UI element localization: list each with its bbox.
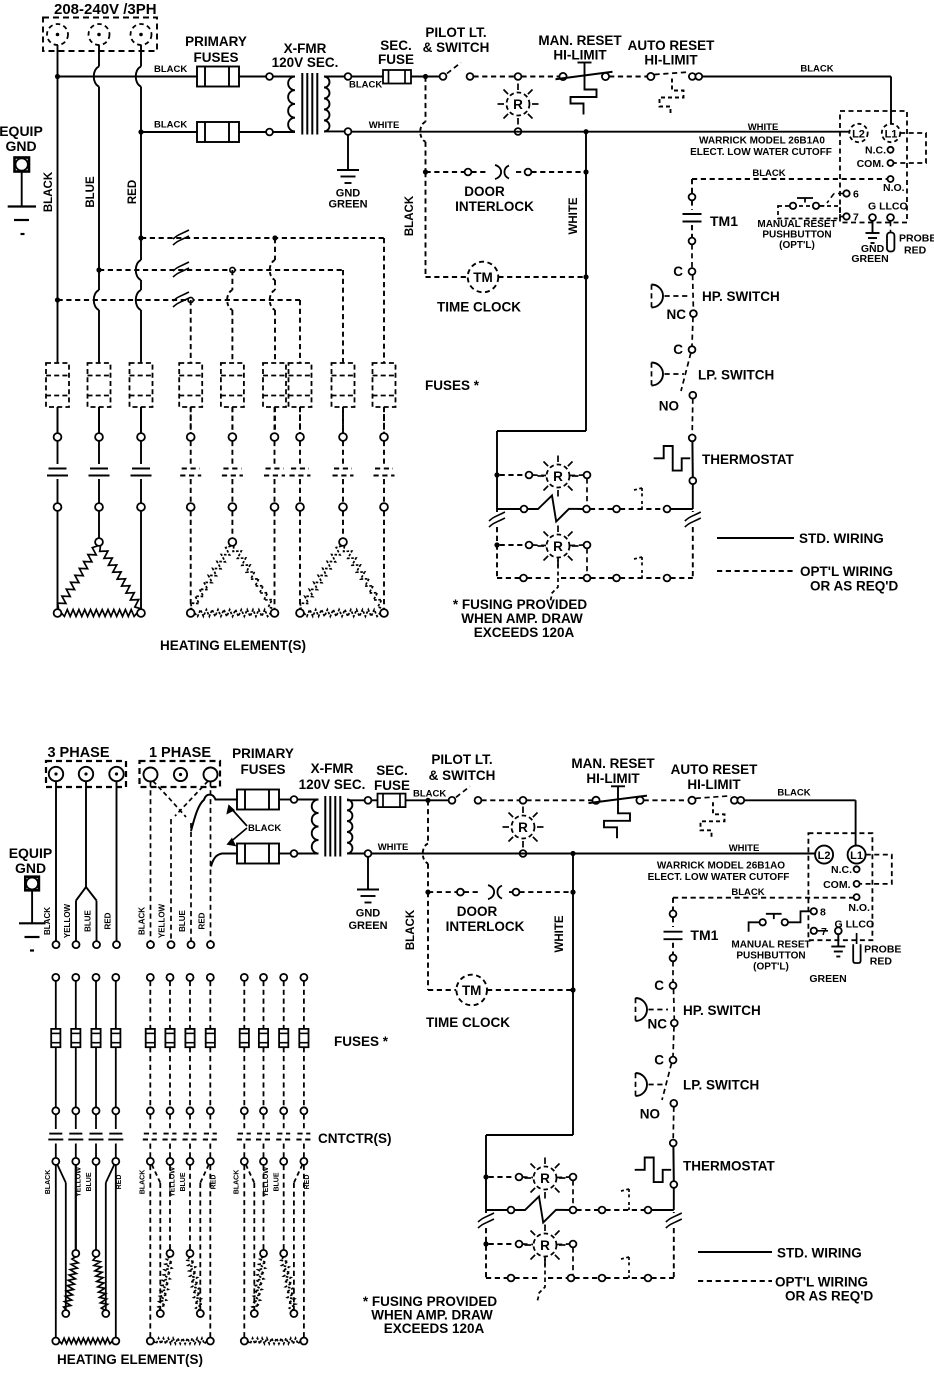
- svg-text:YELLOW: YELLOW: [157, 903, 166, 938]
- svg-text:EXCEEDS 120A: EXCEEDS 120A: [384, 1321, 485, 1336]
- svg-text:NO: NO: [640, 1107, 660, 1122]
- svg-text:FUSE: FUSE: [374, 778, 410, 793]
- svg-text:MAN. RESET: MAN. RESET: [538, 33, 622, 48]
- svg-text:CNTCTR(S): CNTCTR(S): [318, 1131, 392, 1146]
- svg-text:TIME CLOCK: TIME CLOCK: [426, 1015, 510, 1030]
- svg-text:BLACK: BLACK: [752, 168, 785, 179]
- svg-text:NC: NC: [667, 307, 687, 322]
- svg-text:8: 8: [820, 907, 826, 919]
- svg-text:MAN. RESET: MAN. RESET: [571, 756, 655, 771]
- svg-text:STD. WIRING: STD. WIRING: [777, 1246, 862, 1261]
- svg-text:120V SEC.: 120V SEC.: [272, 55, 339, 70]
- svg-text:HI-LIMIT: HI-LIMIT: [687, 777, 741, 792]
- svg-text:BLACK: BLACK: [138, 907, 147, 935]
- svg-text:BLUE: BLUE: [84, 909, 93, 931]
- svg-text:WHITE: WHITE: [369, 120, 400, 131]
- svg-text:& SWITCH: & SWITCH: [423, 40, 490, 55]
- svg-text:OR AS REQ'D: OR AS REQ'D: [810, 579, 898, 594]
- svg-text:R: R: [513, 97, 523, 112]
- svg-text:LP. SWITCH: LP. SWITCH: [683, 1078, 759, 1093]
- svg-text:PILOT LT.: PILOT LT.: [425, 25, 486, 40]
- svg-text:NO: NO: [659, 399, 679, 414]
- svg-text:PUSHBUTTON: PUSHBUTTON: [762, 230, 831, 241]
- svg-text:120V SEC.: 120V SEC.: [299, 777, 366, 792]
- svg-text:C: C: [673, 342, 683, 357]
- svg-text:AUTO RESET: AUTO RESET: [628, 38, 716, 53]
- svg-text:INTERLOCK: INTERLOCK: [455, 199, 534, 214]
- svg-text:WHITE: WHITE: [748, 122, 779, 133]
- svg-text:7: 7: [853, 212, 859, 224]
- svg-text:INTERLOCK: INTERLOCK: [446, 919, 525, 934]
- svg-text:ELECT. LOW WATER CUTOFF: ELECT. LOW WATER CUTOFF: [648, 872, 790, 883]
- svg-text:FUSES *: FUSES *: [425, 378, 480, 393]
- svg-text:HEATING ELEMENT(S): HEATING ELEMENT(S): [160, 638, 306, 653]
- svg-text:HP. SWITCH: HP. SWITCH: [683, 1003, 761, 1018]
- svg-text:BLACK: BLACK: [140, 1170, 147, 1195]
- svg-text:GND: GND: [15, 860, 46, 876]
- svg-text:DOOR: DOOR: [464, 184, 505, 199]
- svg-text:C: C: [654, 1053, 664, 1068]
- svg-text:FUSES *: FUSES *: [334, 1034, 389, 1049]
- svg-text:WHITE: WHITE: [378, 842, 409, 853]
- svg-text:PRIMARY: PRIMARY: [185, 34, 247, 49]
- svg-text:THERMOSTAT: THERMOSTAT: [702, 452, 794, 467]
- svg-text:R: R: [553, 469, 563, 484]
- svg-text:TIME CLOCK: TIME CLOCK: [437, 300, 521, 315]
- svg-text:WHITE: WHITE: [729, 843, 760, 854]
- svg-text:STD. WIRING: STD. WIRING: [799, 531, 884, 546]
- svg-text:BLACK: BLACK: [43, 171, 55, 212]
- svg-text:TM1: TM1: [710, 213, 738, 229]
- svg-text:L2: L2: [818, 850, 831, 862]
- svg-text:C: C: [654, 978, 664, 993]
- svg-text:COM.: COM.: [857, 158, 884, 170]
- svg-text:AUTO RESET: AUTO RESET: [671, 762, 759, 777]
- svg-text:BLUE: BLUE: [86, 1172, 93, 1191]
- svg-text:RED: RED: [304, 1175, 311, 1190]
- svg-text:R: R: [553, 539, 563, 554]
- svg-text:SEC.: SEC.: [380, 38, 412, 53]
- svg-text:& SWITCH: & SWITCH: [429, 768, 496, 783]
- svg-text:RED: RED: [198, 912, 207, 929]
- svg-text:PUSHBUTTON: PUSHBUTTON: [736, 951, 805, 962]
- svg-text:RED: RED: [870, 956, 893, 968]
- svg-text:GND: GND: [5, 138, 36, 154]
- svg-text:EXCEEDS 120A: EXCEEDS 120A: [474, 625, 575, 640]
- svg-text:RED: RED: [104, 912, 113, 929]
- svg-text:FUSES: FUSES: [240, 762, 285, 777]
- svg-text:SEC.: SEC.: [376, 763, 408, 778]
- svg-text:BLACK: BLACK: [349, 80, 382, 91]
- svg-text:BLACK: BLACK: [731, 887, 764, 898]
- svg-text:(OPT'L): (OPT'L): [753, 962, 789, 973]
- svg-text:PROBE: PROBE: [899, 233, 934, 245]
- svg-text:L1: L1: [885, 129, 898, 141]
- svg-text:GND: GND: [356, 908, 381, 920]
- svg-text:(OPT'L): (OPT'L): [779, 240, 815, 251]
- svg-text:N.O.: N.O.: [848, 902, 870, 914]
- svg-text:BLUE: BLUE: [180, 1172, 187, 1191]
- svg-text:6: 6: [853, 189, 859, 201]
- svg-text:DOOR: DOOR: [457, 904, 498, 919]
- svg-text:WARRICK MODEL 26B1AO: WARRICK MODEL 26B1AO: [657, 861, 785, 872]
- svg-text:RED: RED: [210, 1175, 217, 1190]
- svg-text:BLUE: BLUE: [274, 1172, 281, 1191]
- svg-text:L1: L1: [850, 850, 863, 862]
- svg-text:EQUIP: EQUIP: [9, 845, 53, 861]
- svg-text:C: C: [673, 264, 683, 279]
- svg-text:N.C.: N.C.: [865, 145, 886, 157]
- svg-text:FUSE: FUSE: [378, 52, 414, 67]
- svg-text:BLACK: BLACK: [800, 64, 833, 75]
- svg-text:1 PHASE: 1 PHASE: [149, 745, 211, 761]
- svg-text:OR AS REQ'D: OR AS REQ'D: [785, 1289, 873, 1304]
- svg-text:FUSES: FUSES: [193, 50, 238, 65]
- svg-text:ELECT. LOW WATER CUTOFF: ELECT. LOW WATER CUTOFF: [690, 147, 832, 158]
- svg-text:YELLOW: YELLOW: [63, 903, 72, 938]
- svg-text:MANUAL RESET: MANUAL RESET: [731, 940, 810, 951]
- svg-text:HI-LIMIT: HI-LIMIT: [553, 48, 607, 63]
- svg-text:GREEN: GREEN: [851, 253, 888, 265]
- svg-text:L2: L2: [852, 129, 865, 141]
- svg-text:BLACK: BLACK: [154, 120, 187, 131]
- svg-text:RED: RED: [116, 1175, 123, 1190]
- svg-text:* FUSING PROVIDED: * FUSING PROVIDED: [453, 597, 588, 612]
- svg-text:R: R: [518, 820, 528, 835]
- svg-text:OPT'L WIRING: OPT'L WIRING: [800, 564, 893, 579]
- svg-text:MANUAL RESET: MANUAL RESET: [757, 219, 836, 230]
- svg-text:PRIMARY: PRIMARY: [232, 746, 294, 761]
- svg-text:PILOT LT.: PILOT LT.: [431, 752, 492, 767]
- svg-text:BLACK: BLACK: [413, 789, 446, 800]
- svg-text:HI-LIMIT: HI-LIMIT: [586, 771, 640, 786]
- svg-text:WARRICK MODEL 26B1A0: WARRICK MODEL 26B1A0: [699, 136, 825, 147]
- svg-text:RED: RED: [904, 245, 927, 257]
- svg-text:BLACK: BLACK: [405, 909, 417, 950]
- svg-text:3 PHASE: 3 PHASE: [47, 745, 109, 761]
- svg-text:BLACK: BLACK: [154, 64, 187, 75]
- svg-text:N.O.: N.O.: [883, 182, 905, 194]
- svg-text:GREEN: GREEN: [348, 920, 387, 932]
- svg-text:PROBE: PROBE: [864, 944, 901, 956]
- svg-text:R: R: [540, 1238, 550, 1253]
- svg-text:THERMOSTAT: THERMOSTAT: [683, 1159, 775, 1174]
- svg-text:TM: TM: [462, 983, 482, 998]
- svg-text:G LLCO: G LLCO: [868, 201, 908, 213]
- svg-text:WHITE: WHITE: [568, 197, 580, 234]
- svg-text:BLUE: BLUE: [85, 176, 97, 208]
- svg-text:WHITE: WHITE: [554, 915, 566, 952]
- svg-text:X-FMR: X-FMR: [284, 41, 327, 56]
- svg-text:RED: RED: [127, 180, 139, 204]
- svg-text:NC: NC: [648, 1017, 668, 1032]
- svg-text:BLACK: BLACK: [43, 907, 52, 935]
- svg-text:GREEN: GREEN: [328, 199, 367, 211]
- svg-text:TM1: TM1: [690, 927, 718, 943]
- svg-text:TM: TM: [473, 270, 493, 285]
- svg-text:7: 7: [821, 926, 827, 938]
- svg-text:BLACK: BLACK: [234, 1170, 241, 1195]
- svg-text:BLUE: BLUE: [178, 909, 187, 931]
- svg-text:BLACK: BLACK: [777, 787, 810, 798]
- svg-text:HEATING ELEMENT(S): HEATING ELEMENT(S): [57, 1352, 203, 1367]
- svg-text:OPT'L WIRING: OPT'L WIRING: [775, 1275, 868, 1290]
- svg-text:BLACK: BLACK: [45, 1170, 52, 1195]
- svg-text:BLACK: BLACK: [404, 195, 416, 236]
- svg-text:N.C.: N.C.: [831, 864, 852, 876]
- svg-text:R: R: [540, 1171, 550, 1186]
- svg-text:HP. SWITCH: HP. SWITCH: [702, 289, 780, 304]
- svg-text:GREEN: GREEN: [809, 973, 846, 985]
- svg-text:HI-LIMIT: HI-LIMIT: [644, 53, 698, 68]
- svg-text:BLACK: BLACK: [248, 823, 281, 834]
- svg-text:208-240V /3PH: 208-240V /3PH: [54, 1, 157, 18]
- svg-text:X-FMR: X-FMR: [311, 761, 354, 776]
- svg-text:COM.: COM.: [823, 879, 850, 891]
- svg-text:EQUIP: EQUIP: [0, 123, 43, 139]
- svg-text:LP. SWITCH: LP. SWITCH: [698, 368, 774, 383]
- svg-text:WHEN AMP. DRAW: WHEN AMP. DRAW: [461, 611, 583, 626]
